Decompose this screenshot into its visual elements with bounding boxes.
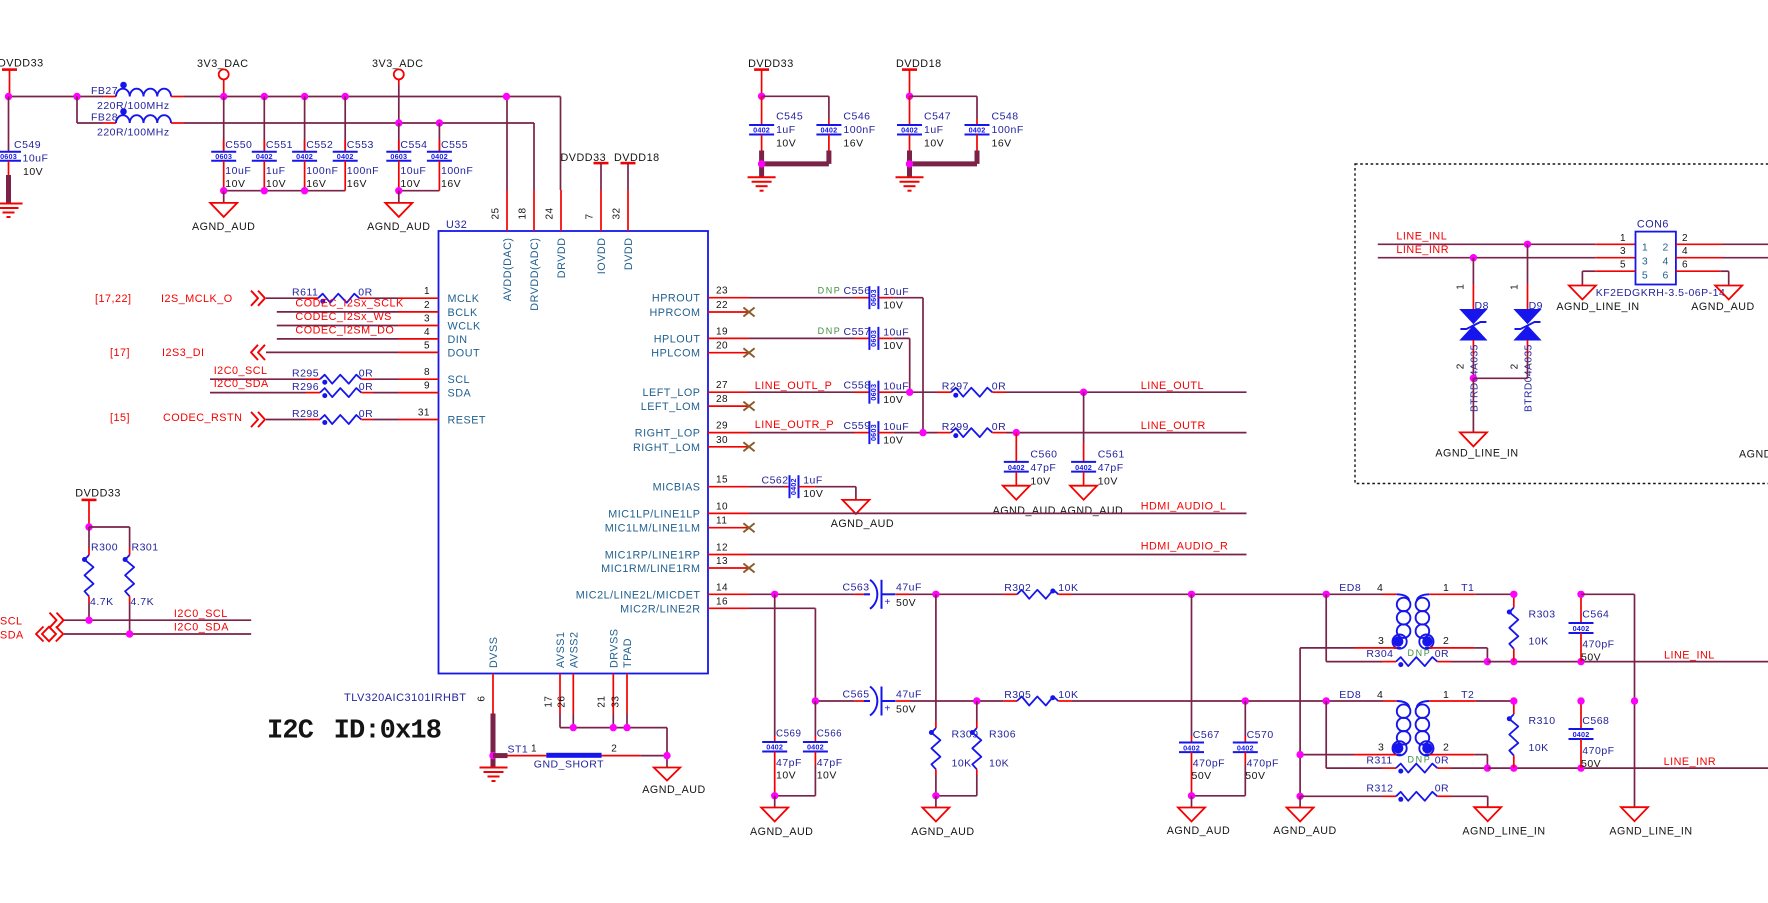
node junction C568 bottom (1577, 764, 1584, 771)
net label LINE_OUTL (1141, 380, 1204, 392)
svg-text:R295: R295 (292, 368, 319, 380)
svg-text:DVDD33: DVDD33 (748, 58, 794, 70)
resistor R298 0R (292, 408, 373, 425)
svg-text:1: 1 (531, 744, 537, 755)
svg-text:R303: R303 (1529, 609, 1556, 621)
svg-text:2: 2 (1510, 363, 1521, 369)
resistor R309 10K DNP (929, 594, 979, 796)
svg-text:LINE_OUTR: LINE_OUTR (1141, 420, 1206, 432)
node junction C547 top (906, 93, 913, 100)
wire T2 pin1 stub (1429, 700, 1514, 702)
svg-text:0402: 0402 (1237, 743, 1254, 752)
node junction R309 tap (932, 591, 939, 598)
ground AGND_AUD (C562) (831, 500, 894, 530)
svg-text:FB28: FB28 (91, 112, 118, 124)
net label HDMI_AUDIO_L (1141, 501, 1227, 513)
svg-text:21: 21 (597, 696, 608, 708)
svg-text:10uF: 10uF (883, 327, 909, 339)
wire I2C0_SDA to R296 (210, 392, 306, 394)
svg-text:0402: 0402 (901, 126, 918, 135)
svg-text:HPLCOM: HPLCOM (651, 348, 700, 360)
net label LINE_INR (connector) (1396, 244, 1449, 256)
node junction C566 tap on pin16 net (812, 697, 819, 704)
net label LINE_INL (T1) (1664, 650, 1715, 662)
svg-text:10uF: 10uF (883, 381, 909, 393)
svg-text:C547: C547 (924, 111, 951, 123)
svg-text:1uF: 1uF (266, 165, 286, 177)
wire C567 gnd drop (1191, 796, 1193, 808)
resistor R306 10K (970, 701, 1016, 796)
resistor R301 4.7K (123, 542, 159, 635)
node junction C551 gnd (261, 187, 268, 194)
svg-text:12: 12 (716, 543, 728, 554)
svg-text:0R: 0R (1435, 783, 1449, 795)
svg-text:2: 2 (1443, 635, 1449, 647)
svg-text:AGND_AUD: AGND_AUD (993, 505, 1056, 517)
node junction C555 on ADC bus (436, 119, 443, 126)
wire C547-C548 ground bus (thick) (910, 151, 978, 178)
svg-text:LEFT_LOP: LEFT_LOP (642, 387, 700, 399)
svg-text:1: 1 (1620, 233, 1626, 244)
pin 2 BCLK (U32 left) (398, 300, 478, 319)
svg-text:2: 2 (1456, 363, 1467, 369)
svg-text:[17,22]: [17,22] (95, 293, 132, 305)
svg-text:27: 27 (716, 380, 728, 391)
connector CON6 KF2EDGKRH (1636, 219, 1676, 285)
svg-text:10K: 10K (1529, 742, 1549, 754)
wire pin14 MIC2L to C563 (749, 593, 869, 595)
svg-text:10V: 10V (400, 178, 420, 190)
node junction R312 on link (1296, 793, 1303, 800)
svg-text:220R/100MHz: 220R/100MHz (97, 100, 170, 112)
svg-text:R306: R306 (989, 729, 1016, 741)
no-connect X pin 22 (743, 308, 754, 317)
svg-text:16V: 16V (843, 138, 863, 150)
pin 30 RIGHT_LOM (U32 right) (633, 435, 749, 454)
diode D8 BTRD04A035 (TVS) (1456, 258, 1489, 412)
dashed boundary box (line-in section) (1355, 164, 1768, 484)
wire D9 to D8 ground link (1473, 377, 1527, 379)
svg-text:0402: 0402 (296, 152, 313, 161)
node junction pin25 on DAC bus (503, 93, 510, 100)
wire CODEC_I2SM_DO to pin4 (277, 338, 398, 340)
svg-text:1: 1 (424, 286, 430, 297)
pin 11 MIC1LM/LINE1LM (U32 right) (605, 516, 749, 535)
wire pin23 to C556 (749, 297, 869, 299)
svg-text:HDMI_AUDIO_R: HDMI_AUDIO_R (1141, 541, 1229, 553)
node junction R300 on SCL (85, 617, 92, 624)
svg-text:DVSS: DVSS (488, 637, 500, 668)
no-connect X pin 13 (743, 564, 754, 573)
svg-text:100nF: 100nF (306, 165, 338, 177)
svg-text:10K: 10K (1058, 689, 1078, 701)
node junction R303 bottom (1510, 658, 1517, 665)
ground AGND_AUD (transformer link) (1273, 808, 1336, 838)
capacitor C559 10uF (844, 420, 910, 446)
wire R309-R306 ground bus (936, 795, 977, 797)
svg-text:C553: C553 (347, 139, 374, 151)
svg-text:ED8: ED8 (1339, 689, 1361, 701)
svg-text:6: 6 (476, 696, 487, 702)
svg-text:R300: R300 (91, 542, 118, 554)
wire C562 to ground (799, 487, 856, 500)
svg-text:R301: R301 (132, 542, 159, 554)
svg-text:AGND_AUD: AGND_AUD (642, 784, 705, 796)
wire C557 to LINE_OUTL net (878, 338, 909, 392)
wire C545-C546 top bus (762, 96, 829, 119)
svg-text:4.7K: 4.7K (131, 596, 155, 608)
svg-text:47pF: 47pF (1030, 462, 1056, 474)
transformer T2 (1377, 689, 1474, 756)
wire CODEC_I2Sx_SCLK to pin2 (277, 311, 398, 313)
node junction R306 tap (973, 697, 980, 704)
svg-text:1: 1 (1443, 689, 1449, 701)
svg-text:13: 13 (716, 556, 728, 567)
resistor R297 0R (937, 381, 1006, 398)
node junction C557/LINE_OUTL (906, 389, 913, 396)
svg-text:0402: 0402 (766, 743, 783, 752)
svg-text:2: 2 (611, 744, 617, 755)
svg-text:SCL: SCL (0, 616, 23, 628)
svg-text:I2C0_SDA: I2C0_SDA (214, 378, 269, 390)
svg-text:C564: C564 (1582, 609, 1609, 621)
power flag DVDD33 (IOVDD pin7) (561, 152, 609, 190)
svg-text:11: 11 (716, 516, 727, 527)
net label ED8 (T1) (1339, 582, 1361, 594)
node junction T2 pin2/R311 (1484, 764, 1491, 771)
svg-text:[15]: [15] (110, 412, 130, 424)
wire I2S_MCLK_O to R611 (266, 297, 304, 299)
ground AGND_AUD (C569/C566) (750, 808, 813, 839)
svg-text:10V: 10V (776, 138, 796, 150)
svg-text:C545: C545 (776, 111, 803, 123)
node junction C570 tap (1242, 697, 1249, 704)
svg-text:8: 8 (424, 367, 430, 378)
svg-text:4: 4 (1663, 255, 1669, 267)
pin 9 SDA (U32 left) (398, 381, 471, 400)
capacitor C569 47pF (762, 594, 802, 796)
svg-text:DNP: DNP (1408, 755, 1432, 765)
ground earth C547 (896, 177, 924, 191)
wire FB28 branch vertical (77, 97, 103, 124)
svg-text:CODEC_I2Sx_WS: CODEC_I2Sx_WS (295, 311, 392, 323)
wire LINE_INL rail (1487, 661, 1768, 663)
svg-text:2: 2 (1663, 241, 1669, 253)
svg-text:LINE_OUTR_P: LINE_OUTR_P (755, 419, 834, 431)
pin 6 DVSS (U32 bottom) (476, 637, 500, 714)
svg-text:4: 4 (1682, 246, 1688, 257)
pin 10 MIC1LP/LINE1LP (U32 right) (608, 501, 749, 520)
net label [17,22] (95, 293, 132, 305)
capacitor C561 47pF (1071, 392, 1125, 488)
wire C554 gnd drop (398, 191, 400, 203)
svg-text:MICBIAS: MICBIAS (653, 482, 701, 494)
capacitor C548 (965, 111, 1024, 151)
ground AGND_LINE_IN (D8/D9) (1435, 432, 1518, 459)
svg-text:C555: C555 (441, 139, 468, 151)
capacitor C555 (427, 123, 473, 191)
net label I2C0_SDA (at R296) (214, 378, 269, 390)
node junction pull-up top (85, 523, 92, 530)
resistor R310 10K (1507, 701, 1556, 768)
wire R297 to LINE_OUTL (1006, 391, 1247, 393)
net label CODEC_I2Sx_SCLK (295, 297, 404, 309)
capacitor C570 470pF (1233, 701, 1279, 796)
svg-text:0603: 0603 (390, 152, 407, 161)
node junction DVSS/ST1 (489, 752, 496, 759)
wire 3V3_ADC bus (FB28 output) (184, 122, 534, 124)
resistor R299 0R (937, 421, 1006, 438)
capacitor C556 10uF (844, 285, 910, 311)
wire HDMI_AUDIO_L (pin10) (749, 512, 1247, 514)
wire T1 pin1 stub (1429, 593, 1514, 595)
svg-text:50V: 50V (1245, 770, 1265, 782)
svg-text:47pF: 47pF (776, 757, 802, 769)
pin 32 DVDD (U32 top) (611, 190, 635, 270)
svg-text:3V3_ADC: 3V3_ADC (372, 58, 424, 70)
node junction C567 gnd (1188, 792, 1195, 799)
svg-text:C562: C562 (762, 474, 789, 486)
svg-text:AGND_AUD: AGND_AUD (1273, 825, 1336, 837)
capacitor C564 470pF (1569, 594, 1615, 663)
capacitor C545 (749, 96, 803, 150)
net label I2C0_SCL (rail) (174, 608, 228, 620)
resistor R302 10K (1003, 582, 1078, 599)
wire I2C0_SDA rail (64, 633, 251, 635)
svg-text:15: 15 (716, 475, 728, 486)
svg-text:C558: C558 (844, 380, 871, 392)
pin 4 DIN (U32 left) (398, 327, 468, 346)
wire R309 gnd drop (935, 796, 937, 808)
svg-text:I2C0_SDA: I2C0_SDA (174, 622, 229, 634)
svg-text:DVDD18: DVDD18 (896, 58, 942, 70)
capacitor C568 470pF (1569, 701, 1615, 770)
off-page connector I2S_MCLK_O (251, 291, 265, 306)
wire C569 gnd drop (774, 796, 776, 808)
svg-text:22: 22 (716, 300, 728, 311)
svg-text:AGND_AUD: AGND_AUD (1060, 505, 1123, 517)
node junction C568 top (1577, 697, 1584, 704)
pin 5 DOUT (U32 left) (398, 340, 480, 359)
wire DVDD33 to bus (9, 96, 104, 98)
svg-text:RIGHT_LOP: RIGHT_LOP (635, 428, 701, 440)
svg-text:ST1: ST1 (508, 744, 529, 756)
svg-text:I2C0_SCL: I2C0_SCL (174, 608, 228, 620)
wire LINE_INL to CON6 pin1 (1378, 243, 1636, 245)
pin 27 LEFT_LOP (U32 right) (642, 380, 749, 399)
pin 29 RIGHT_LOP (U32 right) (635, 421, 749, 440)
wire AVSS/DRVSS/TPAD ground bus (560, 714, 667, 768)
ground AGND_AUD (C561) (1060, 486, 1123, 517)
svg-text:HPROUT: HPROUT (652, 293, 701, 305)
ground AGND_AUD (ADC cap bank) (367, 203, 430, 233)
wire I2C0_SCL to R295 (210, 378, 306, 380)
pin 7 IOVDD (U32 top) (584, 190, 608, 274)
svg-text:C559: C559 (844, 420, 871, 432)
wire CODEC_I2Sx_WS to pin3 (277, 325, 398, 327)
svg-text:0R: 0R (1435, 648, 1449, 660)
net label I2C0_SCL (at R295) (214, 365, 268, 377)
svg-text:0402: 0402 (753, 126, 770, 135)
svg-text:C568: C568 (1582, 715, 1609, 727)
ground AGND_LINE_IN (R312) (1462, 807, 1545, 837)
svg-text:47pF: 47pF (1098, 462, 1124, 474)
power flag 3V3_ADC (372, 58, 424, 123)
svg-text:1: 1 (1642, 241, 1648, 253)
node junction FB28 tap (73, 93, 80, 100)
svg-text:10uF: 10uF (23, 153, 49, 165)
jumper ST1 GND_SHORT (493, 744, 667, 771)
wire C556 to LINE_OUTR net (878, 298, 923, 433)
svg-text:10uF: 10uF (883, 286, 909, 298)
svg-text:LEFT_LOM: LEFT_LOM (641, 401, 701, 413)
svg-text:R304: R304 (1366, 648, 1393, 660)
wire I2S3_DI to pin5 DOUT (266, 351, 398, 353)
svg-text:10uF: 10uF (225, 165, 251, 177)
node junction R301 on SDA (126, 630, 133, 637)
node junction C552 gnd (301, 187, 308, 194)
svg-text:HPRCOM: HPRCOM (650, 307, 701, 319)
svg-text:LINE_OUTL_P: LINE_OUTL_P (755, 380, 833, 392)
svg-text:MCLK: MCLK (448, 293, 480, 305)
svg-text:CON6: CON6 (1637, 219, 1669, 231)
svg-text:26: 26 (557, 696, 568, 708)
svg-text:10V: 10V (1030, 476, 1050, 488)
node junction C567 tap (1188, 591, 1195, 598)
svg-text:10: 10 (716, 501, 728, 512)
net label LINE_OUTR (1141, 420, 1206, 432)
pin 1 CON6 (1620, 233, 1626, 244)
svg-text:2: 2 (1682, 233, 1688, 244)
svg-text:C561: C561 (1098, 448, 1125, 460)
svg-text:0402: 0402 (337, 152, 354, 161)
node junction C560 tap (1013, 429, 1020, 436)
svg-text:47uF: 47uF (896, 582, 922, 594)
ferrite bead FB28 (91, 108, 184, 138)
svg-text:23: 23 (716, 286, 728, 297)
node junction C561 tap (1080, 389, 1087, 396)
node junction ST1 pin2 on drop (663, 752, 670, 759)
net label LINE_OUTR_P (755, 419, 834, 431)
green DNP label C557 (818, 326, 842, 336)
svg-text:I2C ID:0x18: I2C ID:0x18 (267, 716, 441, 746)
pin 25 AVDD(DAC) (U32 top) (490, 190, 514, 301)
svg-text:DNP: DNP (818, 286, 842, 296)
ground AGND_AUD (left cap bank) (192, 203, 255, 233)
ground AGND_LINE_IN (T1/T2 secondary) (1609, 807, 1692, 837)
net label LINE_INR (T2) (1664, 756, 1717, 768)
svg-text:DVDD33: DVDD33 (0, 58, 44, 70)
pin 16 MIC2R/LINE2R (U32 right) (620, 596, 749, 615)
node junction C556/LINE_OUTR (919, 429, 926, 436)
svg-text:5: 5 (1620, 260, 1626, 271)
svg-text:100nF: 100nF (843, 124, 875, 136)
ground AGND_LINE_IN (CON6 pin5) (1556, 286, 1639, 314)
resistor R311 0R DNP (T2 bypass) (1326, 701, 1487, 774)
svg-text:LINE_INR: LINE_INR (1396, 244, 1449, 256)
capacitor C552 (292, 97, 338, 191)
svg-text:100nF: 100nF (441, 165, 473, 177)
svg-text:AGND_AUD: AGND_AUD (750, 826, 813, 838)
capacitor C546 (816, 111, 875, 151)
svg-text:AGND_AUD: AGND_AUD (911, 826, 974, 838)
node junction TPAD on bus (623, 724, 630, 731)
power flag DVDD33 (top left) (0, 58, 44, 97)
svg-text:HDMI_AUDIO_L: HDMI_AUDIO_L (1141, 501, 1227, 513)
svg-text:R296: R296 (292, 381, 319, 393)
resistor R296 0R (292, 381, 373, 398)
svg-text:RIGHT_LOM: RIGHT_LOM (633, 442, 701, 454)
svg-text:0R: 0R (1435, 754, 1449, 766)
pin 24 DRVDD (U32 top) (544, 190, 568, 278)
node junction R309 gnd (932, 792, 939, 799)
svg-text:10V: 10V (266, 178, 286, 190)
svg-text:DRVDD: DRVDD (556, 238, 568, 279)
svg-text:C550: C550 (225, 139, 252, 151)
ground earth C545 (748, 177, 776, 191)
off-page connector I2S3_DI (251, 345, 265, 360)
wire R299 to LINE_OUTR (1006, 432, 1247, 434)
svg-text:AGND_LINE_IN: AGND_LINE_IN (1609, 826, 1692, 838)
svg-text:20: 20 (716, 341, 728, 352)
svg-text:C554: C554 (400, 139, 427, 151)
net label [15] (110, 412, 130, 424)
wire R295 to pin8 SCL (373, 378, 398, 380)
svg-text:DRVDD(ADC): DRVDD(ADC) (529, 238, 541, 311)
svg-text:24: 24 (544, 207, 555, 219)
pin 28 LEFT_LOM (U32 right) (641, 394, 749, 413)
svg-text:0402: 0402 (1075, 463, 1092, 472)
svg-text:MIC1RM/LINE1RM: MIC1RM/LINE1RM (601, 563, 700, 575)
svg-text:10V: 10V (225, 178, 245, 190)
svg-text:7: 7 (584, 213, 595, 219)
wire LINE_INR to CON6 pin3 (1378, 257, 1636, 259)
wire pin16 MIC2R down (749, 608, 815, 701)
pin 22 HPRCOM (U32 right) (650, 300, 750, 319)
svg-text:10V: 10V (1098, 476, 1118, 488)
svg-text:100nF: 100nF (992, 124, 1024, 136)
pin 2 CON6 wire (1676, 233, 1768, 245)
svg-text:0402: 0402 (807, 743, 824, 752)
wire R298 to pin31 RESET (373, 419, 398, 421)
svg-text:3: 3 (1378, 635, 1384, 647)
svg-text:470pF: 470pF (1582, 639, 1614, 651)
node junction R310 top (1510, 697, 1517, 704)
wire HDMI_AUDIO_R (pin12) (749, 554, 1247, 556)
green DNP label C556 (818, 286, 842, 296)
svg-text:0402: 0402 (969, 126, 986, 135)
pin 3 WCLK (U32 left) (398, 314, 481, 333)
svg-text:50V: 50V (1581, 758, 1601, 770)
svg-text:47pF: 47pF (817, 757, 843, 769)
svg-text:1: 1 (1510, 284, 1521, 290)
svg-text:MIC1LP/LINE1LP: MIC1LP/LINE1LP (608, 508, 700, 520)
svg-text:3: 3 (1620, 246, 1626, 257)
svg-text:+: + (885, 704, 891, 715)
node junction C569 tap on pin14 net (771, 591, 778, 598)
capacitor C547 (897, 96, 951, 150)
svg-text:DNP: DNP (1408, 648, 1432, 658)
svg-text:0402: 0402 (1183, 743, 1200, 752)
pin 31 RESET (U32 left) (398, 408, 486, 427)
wire R296 to pin9 SDA (373, 392, 398, 394)
svg-text:FB27: FB27 (91, 85, 118, 97)
net label CODEC_I2SM_DO (295, 325, 394, 337)
no-connect X pin 28 (743, 402, 754, 411)
svg-text:DNP: DNP (818, 326, 842, 336)
no-connect X pin 11 (743, 523, 754, 532)
resistor R300 4.7K (82, 527, 118, 620)
